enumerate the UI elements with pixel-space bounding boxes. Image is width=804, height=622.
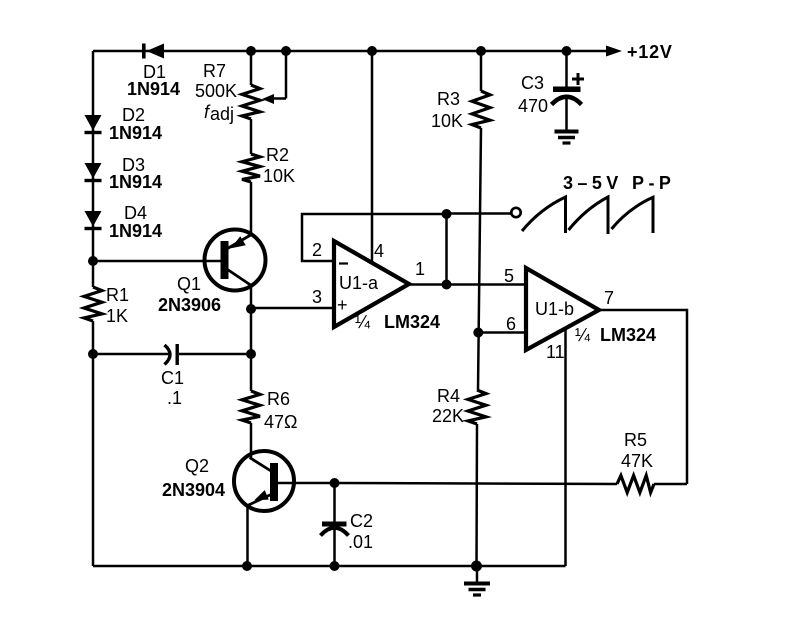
- wire: left rail lower segment: [92, 321, 95, 566]
- wire: top +12V rail: [93, 50, 609, 53]
- value .01: [348, 532, 373, 552]
- svg-text:U1-a: U1-a: [339, 273, 379, 293]
- svg-text:7: 7: [604, 288, 614, 308]
- wire: U1-a pin 2 feedback loop: [302, 214, 447, 261]
- label R1: [106, 285, 129, 305]
- node: U1-b pin 6 junction: [473, 328, 483, 338]
- value 2N3904: [162, 480, 225, 500]
- label Q1: [177, 274, 201, 294]
- svg-text:2: 2: [312, 240, 322, 260]
- svg-text:47K: 47K: [621, 451, 653, 471]
- transistor Q2 2N3904: [234, 451, 294, 566]
- svg-text:2N3906: 2N3906: [158, 295, 221, 315]
- node: Q1 base junction on left rail: [88, 256, 98, 266]
- node: feedback junction: [442, 209, 452, 219]
- node: U1-a output junction: [442, 280, 452, 290]
- label Q2: [185, 456, 209, 476]
- diode D1: [142, 44, 164, 59]
- svg-text:C3: C3: [521, 73, 544, 93]
- wire: Q2 base to C2 junction and on to R5: [278, 483, 617, 484]
- label R4: [437, 386, 460, 406]
- pin 4: [374, 241, 384, 261]
- node: C1 right junction: [246, 349, 256, 359]
- svg-text:500K: 500K: [195, 81, 237, 101]
- resistor R5: [617, 476, 687, 493]
- svg-text:R1: R1: [106, 285, 129, 305]
- ground (main): [464, 566, 490, 595]
- value 500K: [195, 81, 237, 101]
- svg-text:.01: .01: [348, 532, 373, 552]
- label 3-5V P-P: [563, 173, 675, 193]
- node: C1 left junction on rail: [88, 349, 98, 359]
- node: C3 top rail junction: [562, 46, 572, 56]
- wire: R3/R4 column: [478, 128, 481, 390]
- pin 6: [506, 314, 516, 334]
- value 470: [518, 96, 548, 116]
- pin 2: [312, 240, 322, 260]
- value 1/4 LM324 (U1-b): [575, 325, 656, 345]
- label R2: [266, 145, 289, 165]
- label R5: [624, 430, 647, 450]
- value 1N914 (D2): [109, 123, 162, 143]
- value 1N914 (D3): [109, 172, 162, 192]
- pin 7: [604, 288, 614, 308]
- svg-text:10K: 10K: [431, 111, 463, 131]
- svg-text:47Ω: 47Ω: [264, 412, 297, 432]
- node: Q1 collector junction: [246, 304, 256, 314]
- svg-text:1K: 1K: [106, 306, 128, 326]
- node: Q2 emitter on ground rail: [242, 561, 252, 571]
- label U1-a: [339, 273, 379, 293]
- op-amp U1-a: [334, 241, 409, 327]
- capacitor C1: [93, 344, 251, 365]
- wire: U1-a pin 4 to +12V rail: [371, 51, 374, 262]
- wire: feedback to output test point: [447, 212, 512, 215]
- svg-text:4: 4: [374, 241, 384, 261]
- label C3: [521, 73, 544, 93]
- svg-text:R4: R4: [437, 386, 460, 406]
- node: ground rail junction: [471, 561, 482, 572]
- diode D2: [85, 115, 102, 134]
- wire: feedback junction down to output: [445, 214, 448, 285]
- capacitor C3: [552, 51, 582, 130]
- ground (C3): [555, 132, 579, 144]
- svg-text:+12V: +12V: [627, 42, 673, 62]
- value 1K: [106, 306, 128, 326]
- node: R3 top rail junction: [476, 46, 486, 56]
- svg-text:1N914: 1N914: [109, 172, 162, 192]
- svg-text:3: 3: [312, 287, 322, 307]
- svg-text:470: 470: [518, 96, 548, 116]
- label D2: [122, 105, 145, 125]
- node: pin 4 rail junction: [367, 46, 377, 56]
- value 47ohm: [264, 412, 297, 432]
- wire: left rail upper segment: [92, 51, 95, 287]
- resistor R6: [242, 354, 260, 458]
- wire: Q1 collector to U1-a pin 3: [251, 307, 334, 310]
- wire: bottom ground rail: [93, 565, 566, 568]
- svg-text:U1-b: U1-b: [535, 299, 574, 319]
- value 10K (R2): [263, 166, 295, 186]
- pin 11: [546, 342, 565, 362]
- svg-text:LM324: LM324: [384, 312, 440, 332]
- wire: U1-a output to U1-b pin 5: [409, 283, 526, 286]
- node: R7 wiper rail junction: [281, 46, 291, 56]
- value .1: [167, 388, 182, 408]
- svg-text:11: 11: [546, 342, 565, 362]
- svg-text:C1: C1: [161, 368, 184, 388]
- svg-text:C2: C2: [350, 511, 373, 531]
- value 47K: [621, 451, 653, 471]
- potentiometer R7: [242, 51, 286, 119]
- svg-text:+: +: [337, 295, 348, 315]
- wire: junction to U1-b pin 6: [478, 331, 526, 334]
- label R7: [203, 61, 226, 81]
- pin 1: [415, 259, 425, 279]
- svg-text:1: 1: [415, 259, 425, 279]
- svg-text:LM324: LM324: [600, 325, 656, 345]
- svg-text:.1: .1: [167, 388, 182, 408]
- wire: U1-b pin 11 to ground rail: [564, 329, 567, 566]
- value 10K (R3): [431, 111, 463, 131]
- resistor R2: [242, 119, 260, 182]
- svg-text:1N914: 1N914: [109, 221, 162, 241]
- node: Q2 base / C2 junction: [330, 478, 340, 488]
- label R6: [267, 389, 290, 409]
- svg-text:D4: D4: [124, 203, 147, 223]
- value 1N914 (D4): [109, 221, 162, 241]
- wire: collector junction down to C1 junction: [250, 309, 253, 354]
- pin 5: [504, 266, 514, 286]
- svg-text:1N914: 1N914: [109, 123, 162, 143]
- svg-text:R7: R7: [203, 61, 226, 81]
- resistor R1: [84, 287, 102, 321]
- node: R7 top rail junction: [246, 46, 256, 56]
- label f adj: [204, 102, 234, 124]
- label C2: [350, 511, 373, 531]
- value 1/4 LM324 (U1-a): [355, 312, 440, 332]
- svg-text:5: 5: [504, 266, 514, 286]
- svg-text:R2: R2: [266, 145, 289, 165]
- capacitor C2: [321, 483, 349, 566]
- transistor Q1 2N3906: [205, 182, 266, 309]
- value 2N3906: [158, 295, 221, 315]
- svg-text:22K: 22K: [432, 406, 464, 426]
- label U1-b: [535, 299, 574, 319]
- svg-text:3–5V P-P: 3–5V P-P: [563, 173, 675, 193]
- resistor R3: [472, 51, 490, 128]
- wire: Q1 base to left rail: [93, 260, 221, 263]
- svg-text:R6: R6: [267, 389, 290, 409]
- svg-text:adj: adj: [210, 104, 234, 124]
- wire: U1-b pin 7 output: [599, 310, 687, 484]
- svg-text:1N914: 1N914: [127, 79, 180, 99]
- value 22K: [432, 406, 464, 426]
- svg-text:2N3904: 2N3904: [162, 480, 225, 500]
- label D3: [122, 155, 145, 175]
- svg-text:Q1: Q1: [177, 274, 201, 294]
- pin 3: [312, 287, 322, 307]
- svg-text:¼: ¼: [355, 312, 371, 332]
- svg-text:R5: R5: [624, 430, 647, 450]
- label D4: [124, 203, 147, 223]
- +12V supply arrow and label: [606, 42, 673, 62]
- svg-text:Q2: Q2: [185, 456, 209, 476]
- output terminal circle: [511, 208, 520, 217]
- sawtooth waveform: [522, 197, 653, 234]
- label D1: [143, 62, 166, 82]
- svg-text:10K: 10K: [263, 166, 295, 186]
- diode D4: [85, 211, 102, 230]
- label R3: [437, 89, 460, 109]
- svg-text:R3: R3: [437, 89, 460, 109]
- svg-text:¼: ¼: [575, 325, 591, 345]
- label C1: [161, 368, 184, 388]
- node: C2 bottom on ground rail: [330, 561, 340, 571]
- C3 plus polarity mark: [572, 73, 584, 85]
- diode D3: [85, 163, 102, 182]
- resistor R4: [468, 390, 486, 566]
- value 1N914 (D1): [127, 79, 180, 99]
- svg-text:6: 6: [506, 314, 516, 334]
- op-amp U1-b: [526, 268, 599, 350]
- svg-text:D2: D2: [122, 105, 145, 125]
